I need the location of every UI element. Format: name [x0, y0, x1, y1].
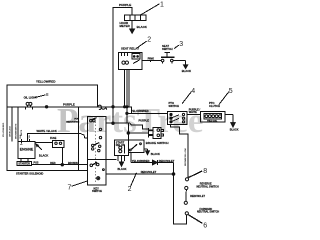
svg-text:2: 2 — [147, 37, 151, 44]
svg-text:WHITE / BLACK: WHITE / BLACK — [37, 129, 57, 133]
svg-text:SWITCH: SWITCH — [162, 47, 173, 51]
svg-text:BROWN/WHITE: BROWN/WHITE — [16, 123, 18, 139]
svg-text:4: 4 — [191, 88, 195, 95]
svg-text:STARTER: STARTER — [18, 163, 30, 166]
svg-text:BLK: BLK — [20, 134, 22, 139]
svg-text:OIL LIGHT: OIL LIGHT — [24, 96, 38, 100]
svg-text:YEL/ORN/RED: YEL/ORN/RED — [132, 159, 150, 163]
svg-text:OR/BLACK: OR/BLACK — [9, 126, 12, 137]
svg-text:BLACK: BLACK — [118, 167, 127, 171]
svg-text:3: 3 — [179, 41, 183, 48]
svg-text:YEL/ORN/RED: YEL/ORN/RED — [3, 122, 5, 137]
svg-text:PUR: PUR — [74, 119, 79, 121]
svg-text:RED/ORANGE: RED/ORANGE — [66, 120, 80, 123]
svg-text:RED: RED — [50, 162, 55, 165]
svg-text:PINK: PINK — [148, 57, 154, 61]
svg-text:STARTER SOLENOID: STARTER SOLENOID — [16, 171, 43, 175]
svg-text:NEUTRAL SWITCH: NEUTRAL SWITCH — [197, 185, 219, 188]
svg-text:PURPLE: PURPLE — [63, 102, 75, 106]
svg-text:BLACK: BLACK — [182, 69, 191, 73]
svg-text:8: 8 — [203, 168, 207, 175]
svg-text:2: 2 — [128, 186, 132, 193]
svg-text:BLACK: BLACK — [39, 153, 48, 157]
svg-text:YELLOW/RED: YELLOW/RED — [36, 79, 55, 83]
svg-text:RED/VIOLET: RED/VIOLET — [141, 170, 157, 174]
svg-text:RED/VIOLET: RED/VIOLET — [159, 159, 175, 163]
svg-text:METER: METER — [120, 24, 131, 28]
svg-text:SEAT RELAY: SEAT RELAY — [121, 47, 139, 51]
svg-text:BLACK: BLACK — [151, 152, 160, 156]
svg-text:FUSE: FUSE — [50, 137, 57, 140]
svg-text:RELAY: RELAY — [116, 143, 125, 147]
svg-text:SWITCH: SWITCH — [92, 189, 102, 193]
svg-text:5: 5 — [229, 88, 233, 95]
svg-text:BROWN: BROWN — [68, 162, 78, 165]
svg-text:BLACK: BLACK — [137, 25, 148, 29]
svg-text:SWITCH: SWITCH — [169, 104, 180, 108]
svg-text:YEL/ORN/RED: YEL/ORN/RED — [131, 109, 149, 113]
svg-text:BLACK: BLACK — [230, 128, 239, 131]
svg-text:NEUTRAL SWITCH: NEUTRAL SWITCH — [197, 211, 219, 214]
svg-text:POS: POS — [34, 161, 39, 164]
svg-text:WHITE: WHITE — [189, 111, 197, 114]
svg-text:7: 7 — [68, 185, 72, 192]
svg-text:6: 6 — [203, 223, 207, 230]
svg-text:RED/VIOLET: RED/VIOLET — [190, 195, 205, 198]
svg-text:ENGINE: ENGINE — [20, 148, 34, 152]
svg-text:PURPLE: PURPLE — [139, 119, 150, 123]
svg-text:CLUTCH: CLUTCH — [209, 104, 220, 108]
svg-text:BROWN/YELLOW: BROWN/YELLOW — [185, 148, 187, 166]
svg-text:BRAKE SWITCH: BRAKE SWITCH — [146, 141, 169, 145]
svg-text:PURPLE: PURPLE — [119, 3, 131, 7]
svg-text:FIELD COIL: FIELD COIL — [207, 120, 218, 122]
svg-text:1: 1 — [160, 2, 164, 9]
